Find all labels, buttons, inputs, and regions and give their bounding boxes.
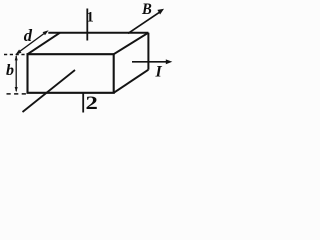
top face left oblique edge [28,33,61,55]
svg-text:b: b [6,62,14,79]
dimension d arrow shaft [17,31,47,53]
top face back edge (with d-dimension extension) [48,32,148,34]
I current arrow shaft [132,61,166,63]
d arrow head upper-right [43,30,49,35]
svg-text:B: B [141,2,152,18]
B arrow head [157,9,164,15]
dashed extension line top [4,54,26,56]
B field arrow shaft [128,12,160,33]
svg-text:d: d [24,26,33,45]
current lead wire through front face [23,70,76,112]
I arrow head [166,59,173,64]
right face bottom oblique edge [114,70,149,93]
d arrow head lower-left [16,50,22,55]
svg-text:1: 1 [87,10,94,26]
svg-text:I: I [155,63,163,80]
top face right oblique edge [114,33,149,55]
b arrow head up [15,55,18,61]
right face back vertical edge [147,33,149,70]
b arrow head down [15,87,18,92]
front face [28,54,114,93]
dimension b arrow shaft [15,56,17,91]
dashed extension line bottom [7,93,27,95]
wire lead 2 (bottom) [82,93,84,113]
svg-text:2: 2 [86,92,98,114]
wire lead 1 (top) [86,9,88,41]
